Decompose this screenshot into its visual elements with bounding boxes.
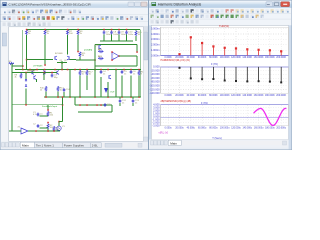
wire (62, 97, 64, 105)
junction lower rail (94, 96, 96, 98)
wire (119, 103, 121, 106)
junction mid rail (54, 69, 56, 71)
junction out (118, 55, 120, 57)
junction mid rail (29, 69, 31, 71)
junction mid rail (79, 69, 81, 71)
capacitor C13 (132, 99, 140, 104)
node label Feedback/Input (42, 105, 57, 108)
svg-text:20.000K: 20.000K (175, 95, 184, 97)
junction bottom box (79, 104, 81, 106)
junction rail (77, 29, 79, 31)
svg-text:1k: 1k (98, 56, 100, 58)
transistor Q5 (57, 71, 59, 75)
svg-text:F (Hz): F (Hz) (211, 63, 218, 66)
svg-text:140.000K: 140.000K (242, 57, 252, 59)
svg-text:Harmonic Distortion Analysis: Harmonic Distortion Analysis (158, 3, 201, 7)
transistor Q12 (99, 45, 101, 49)
junction mid rail (74, 69, 76, 71)
svg-text:T (Secs): T (Secs) (212, 137, 222, 140)
svg-text:-20.000: -20.000 (151, 69, 160, 73)
resistor R9 (77, 30, 83, 36)
svg-text:1.000m: 1.000m (151, 48, 160, 52)
svg-text:140.000u: 140.000u (243, 128, 253, 130)
resistor R2 (47, 124, 54, 130)
wire (79, 76, 81, 98)
svg-text:Power Supplies: Power Supplies (64, 143, 85, 147)
junction rail (111, 29, 113, 31)
wire fb left (94, 45, 96, 67)
THD stems (178, 36, 282, 55)
junction lower rail (69, 96, 71, 98)
svg-text:180.000K: 180.000K (265, 57, 275, 59)
wire (36, 79, 38, 82)
left toolbars (1, 8, 149, 27)
junction (47, 109, 49, 111)
junction rail (126, 29, 128, 31)
junction mid rail (138, 69, 140, 71)
wire (44, 35, 46, 65)
left tab bar (1, 142, 149, 149)
junction bottom box (96, 104, 98, 106)
wire left rail (11, 64, 13, 132)
junction lower rail (57, 96, 59, 98)
wire buffer in (9, 130, 21, 132)
svg-text:180.000K: 180.000K (265, 95, 275, 97)
resistor R18 (138, 70, 145, 76)
diode D2 (25, 85, 27, 87)
wire feedback bus (12, 104, 63, 106)
wire (57, 92, 59, 98)
wire (63, 92, 65, 97)
wire bias bus (12, 72, 57, 74)
svg-text:0.000: 0.000 (153, 65, 160, 69)
wire (111, 35, 113, 42)
junction mid rail (130, 69, 132, 71)
wire (22, 30, 24, 70)
capacitor C10 (125, 31, 134, 36)
wire (107, 82, 109, 97)
wire out (119, 55, 137, 57)
wire (103, 35, 105, 42)
junction mid rail (36, 69, 38, 71)
wire mid rail (15, 69, 141, 71)
transistor Q3 (32, 71, 34, 75)
right window left border strip (149, 25, 151, 139)
middle chart x labels (165, 95, 287, 97)
junction rail (44, 29, 46, 31)
capacitor C5 (121, 70, 128, 75)
wire (59, 121, 63, 123)
capacitor C1 (37, 113, 44, 117)
resistor R1 (47, 111, 54, 117)
junction (51, 72, 53, 74)
junction mid rail (123, 69, 125, 71)
junction (94, 59, 96, 61)
transistor Q2 (67, 56, 69, 60)
wire (121, 76, 123, 98)
junction (62, 96, 64, 98)
svg-text:-3.000: -3.000 (152, 124, 160, 128)
svg-text:100n: 100n (113, 34, 119, 36)
bottom chart x labels (165, 128, 287, 130)
junction lower rail (107, 96, 109, 98)
middle chart grid (161, 67, 289, 93)
svg-text:80.000u: 80.000u (209, 128, 218, 130)
junction op-amp out node (136, 51, 138, 53)
junction tail (61, 62, 63, 64)
middle chart x label row2 (161, 100, 192, 103)
wire (132, 103, 134, 106)
svg-text:200.000u: 200.000u (276, 128, 286, 130)
svg-text:140.000K: 140.000K (242, 95, 252, 97)
wire base Q1 (27, 59, 54, 61)
wire (25, 89, 27, 105)
wire (118, 35, 120, 42)
wire (45, 92, 47, 98)
wire (58, 122, 60, 127)
svg-text:-80.000: -80.000 (151, 80, 160, 84)
svg-text:160.000u: 160.000u (254, 128, 264, 130)
resistor R7 (67, 30, 74, 36)
svg-text:4.7u: 4.7u (33, 114, 37, 116)
wire V+ rail (27, 29, 141, 31)
svg-text:-60.000: -60.000 (151, 76, 160, 80)
wire (136, 45, 138, 53)
transistor Q1 (55, 56, 57, 60)
wire (136, 56, 138, 66)
resistor R17 (86, 70, 93, 76)
bottom chart axis title (212, 137, 222, 140)
svg-text:-120.000: -120.000 (149, 87, 160, 91)
node label OUT (110, 92, 115, 94)
junction (77, 51, 79, 53)
plot panel (151, 25, 288, 139)
junction rail (118, 29, 120, 31)
wire cap bus (100, 40, 133, 42)
junction mid rail (94, 69, 96, 71)
svg-text:1k: 1k (98, 49, 100, 51)
wire (111, 105, 113, 112)
svg-text:60.000K: 60.000K (198, 57, 207, 59)
resistor R3 (26, 30, 32, 36)
junction (35, 130, 37, 132)
wire stub (12, 65, 23, 67)
svg-text:100.000K: 100.000K (220, 57, 230, 59)
resistor (45, 86, 47, 92)
top chart axis title (211, 63, 218, 66)
op-amp X1 input buffer (18, 127, 29, 135)
wire (43, 73, 45, 81)
resistor R14 (57, 86, 64, 92)
wire (86, 76, 88, 91)
left title buttons (128, 2, 147, 6)
left window frame (0, 0, 149, 150)
wire (138, 76, 140, 98)
wire (78, 111, 112, 113)
junction (47, 122, 49, 124)
svg-text:100n: 100n (121, 34, 127, 36)
wire fb bottom (95, 65, 137, 67)
junction (47, 130, 49, 132)
wire (130, 76, 132, 98)
svg-text:160.000K: 160.000K (254, 57, 264, 59)
wire (62, 105, 64, 122)
wire (126, 35, 128, 42)
svg-text:4.000m: 4.000m (151, 32, 160, 36)
svg-text:200.000K: 200.000K (276, 95, 286, 97)
right tab bar (149, 140, 289, 148)
capacitor C11 (104, 103, 112, 107)
wire (47, 129, 49, 131)
svg-text:LTP/BIAS: LTP/BIAS (33, 65, 43, 68)
capacitor C3 (51, 74, 59, 79)
svg-text:dB(HARMONIC(V(RL))) (dB): dB(HARMONIC(V(RL))) (dB) (161, 100, 192, 103)
bottom chart y labels (152, 103, 160, 128)
svg-text:-40.000: -40.000 (151, 72, 160, 76)
svg-text:BC546B: BC546B (55, 53, 63, 55)
junction (44, 64, 46, 66)
capacitor C2 (37, 124, 44, 128)
wire (69, 70, 71, 98)
wire (119, 97, 121, 99)
right window frame (149, 0, 293, 150)
bottom chart zero axis (161, 116, 289, 118)
wire (26, 35, 28, 70)
junction lower rail (45, 96, 47, 98)
svg-text:100.000u: 100.000u (220, 128, 230, 130)
wire base Q2 (70, 59, 77, 61)
svg-text:THD(%): THD(%) (219, 24, 229, 28)
wire (135, 30, 137, 31)
node label LTP/BIAS (33, 65, 43, 68)
junction mid rail (22, 69, 24, 71)
svg-text:OUT: OUT (110, 92, 115, 94)
transistor Q8 output device (104, 88, 108, 93)
resistor R11 (79, 52, 86, 58)
capacitor C12 (119, 99, 127, 104)
wire (79, 57, 81, 60)
wire (47, 105, 49, 110)
resistor R5 (44, 30, 50, 36)
top chart title (219, 24, 229, 28)
junction (26, 59, 28, 61)
svg-text:0.000u: 0.000u (165, 128, 173, 130)
wire (74, 97, 76, 105)
right title buttons (266, 2, 290, 7)
capacitor C4 (100, 70, 107, 75)
svg-text:100.000K: 100.000K (220, 95, 230, 97)
resistor R6 (53, 126, 60, 132)
bottom chart signal label (159, 132, 169, 135)
wire bottom box (75, 104, 112, 106)
schematic canvas (9, 27, 144, 142)
junction bottom box (86, 104, 88, 106)
svg-text:1k: 1k (40, 90, 42, 92)
svg-text:Main: Main (22, 143, 29, 147)
junction mid rail (44, 69, 46, 71)
middle chart y labels (149, 65, 160, 95)
svg-text:0.000K: 0.000K (165, 95, 173, 97)
wire (39, 127, 48, 129)
svg-text:2-BL: 2-BL (92, 143, 98, 147)
junction (62, 104, 64, 106)
junction (25, 104, 27, 106)
svg-text:40.000K: 40.000K (187, 95, 196, 97)
left title bar (1, 1, 149, 8)
junction rail (103, 29, 105, 31)
junction mid rail (107, 69, 109, 71)
svg-text:Tier 1 Notes 1: Tier 1 Notes 1 (36, 143, 54, 147)
wire (58, 130, 60, 133)
junction rail (67, 29, 69, 31)
resistor (20, 73, 22, 79)
svg-text:2.000m: 2.000m (151, 43, 160, 47)
svg-text:HARMONIC(V(RL),1%) (%): HARMONIC(V(RL),1%) (%) (161, 59, 191, 62)
wire (132, 97, 134, 99)
junction (53, 130, 55, 132)
wire (67, 35, 69, 55)
transistor Q7 (109, 75, 111, 79)
resistor R15 (135, 31, 142, 37)
top chart signal label (161, 59, 191, 62)
svg-text:20.000u: 20.000u (175, 128, 184, 130)
svg-text:C:\MC12\DATA\Patmos\VSSA\(nath: C:\MC12\DATA\Patmos\VSSA\(nathan_JE950-9… (9, 3, 92, 7)
right title bar (149, 1, 292, 8)
bottom chart grid (161, 105, 289, 126)
capacitor C6 (130, 70, 137, 75)
junction lower rail (138, 96, 140, 98)
sine wave (254, 108, 287, 125)
junction (25, 72, 27, 74)
svg-text:100n: 100n (106, 34, 112, 36)
svg-text:3.000m: 3.000m (151, 37, 160, 41)
top chart x labels (165, 57, 287, 59)
left pane strip (1, 27, 8, 142)
svg-text:80.000K: 80.000K (209, 57, 218, 59)
top chart grid (161, 27, 289, 55)
junction (22, 65, 24, 67)
left window vscroll (144, 27, 148, 142)
svg-text:-140.000: -140.000 (149, 91, 160, 95)
svg-text:60.000u: 60.000u (198, 128, 207, 130)
junction bottom box (100, 104, 102, 106)
svg-text:40.000u: 40.000u (187, 128, 196, 130)
svg-text:[2-BIAS]: [2-BIAS] (84, 49, 93, 52)
bottom chart top axis (161, 104, 289, 106)
junction lower rail (121, 96, 123, 98)
right window right border (289, 25, 292, 149)
op-amp U1 (112, 52, 119, 60)
junction mid rail (67, 69, 69, 71)
junction mid rail (61, 69, 63, 71)
svg-text:-100.000: -100.000 (149, 84, 160, 88)
junction in+ (111, 59, 113, 61)
transistor Q6 (34, 76, 36, 80)
diode D1 (25, 79, 27, 81)
top chart y labels (151, 26, 160, 57)
transistor Q4 (43, 71, 45, 75)
wire right rail (140, 30, 142, 98)
junction mid rail (86, 69, 88, 71)
wire (100, 77, 102, 97)
svg-text:v(RL) (V): v(RL) (V) (159, 132, 169, 135)
wire (76, 59, 95, 61)
svg-text:80.000K: 80.000K (209, 95, 218, 97)
svg-text:0.000m: 0.000m (151, 53, 160, 57)
wire (39, 115, 48, 117)
wire (135, 36, 137, 41)
resistor R16 (79, 70, 86, 76)
wire tail (61, 63, 63, 70)
wire (115, 70, 117, 98)
svg-text:4k: 4k (15, 77, 17, 79)
capacitor C9 (118, 31, 127, 36)
svg-text:Main: Main (170, 141, 177, 145)
capacitor C8 (110, 31, 119, 36)
wire (57, 62, 67, 64)
svg-text:120.000K: 120.000K (231, 95, 241, 97)
svg-text:BC546B: BC546B (27, 71, 35, 73)
svg-text:60.000K: 60.000K (198, 95, 207, 97)
svg-text:120.000K: 120.000K (231, 57, 241, 59)
wire (94, 66, 96, 97)
junction mid rail (115, 69, 117, 71)
junction lower rail (79, 96, 81, 98)
svg-text:200.000K: 200.000K (276, 57, 286, 59)
junction in- (111, 51, 113, 53)
junction mid rail (100, 69, 102, 71)
node label [2-BIAS] (84, 49, 93, 52)
svg-text:Feedback/Input: Feedback/Input (42, 105, 57, 108)
harmonic stems (179, 67, 283, 84)
wire lower rail (44, 96, 141, 98)
svg-text:180.000u: 180.000u (265, 128, 275, 130)
resistor R26 (98, 56, 104, 59)
svg-text:100n: 100n (128, 34, 134, 36)
wire (25, 73, 27, 80)
wire (77, 35, 79, 52)
svg-text:160.000K: 160.000K (254, 95, 264, 97)
wire emitters (61, 61, 63, 63)
resistor R4 (9, 61, 14, 64)
wire buffer out (28, 130, 60, 132)
voltage source V1 (57, 126, 66, 131)
junction rail (26, 29, 28, 31)
wire fb top (95, 44, 137, 46)
svg-text:5.000m: 5.000m (151, 26, 160, 30)
capacitor C7 (103, 31, 112, 36)
resistor R24 (98, 49, 104, 52)
wire (53, 130, 55, 132)
right toolbars (149, 8, 292, 25)
junction lower rail (130, 96, 132, 98)
junction (43, 72, 45, 74)
middle chart axis title (201, 102, 208, 105)
junction (58, 121, 60, 123)
capacitor C14 (63, 88, 71, 92)
svg-text:120.000u: 120.000u (231, 128, 241, 130)
